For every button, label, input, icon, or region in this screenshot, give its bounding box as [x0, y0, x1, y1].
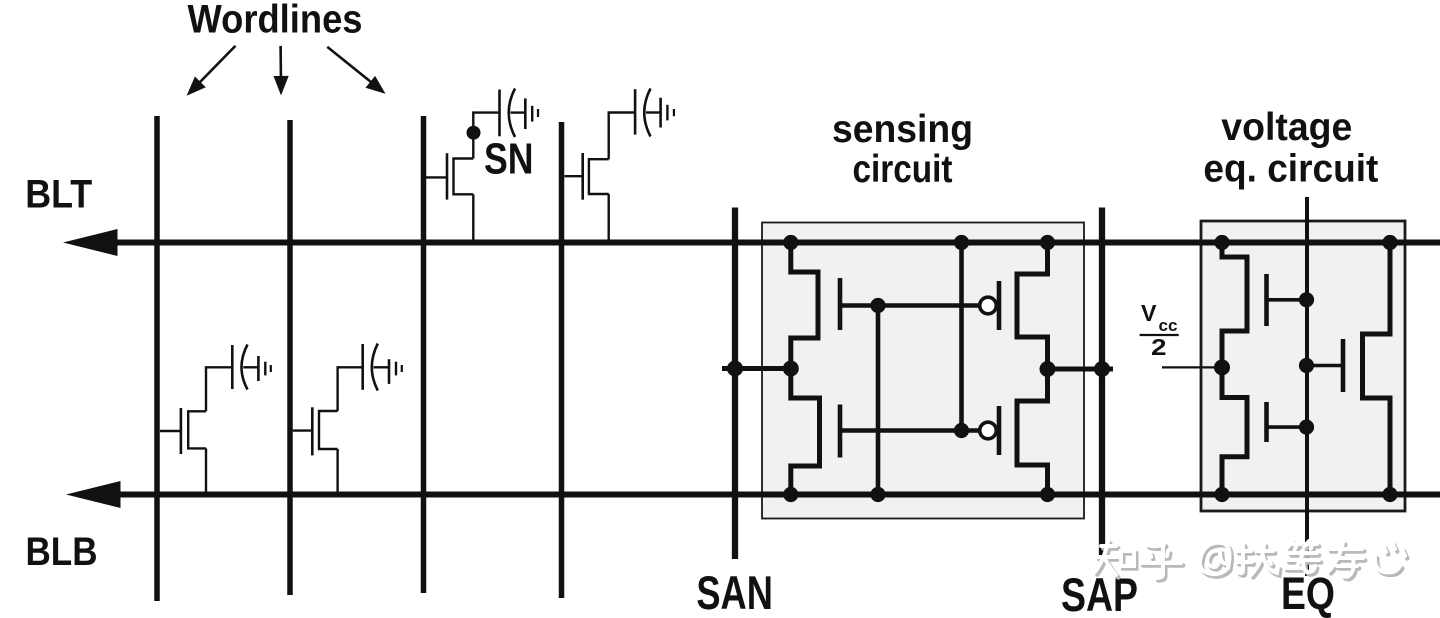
- dot EQ gate top: [1299, 292, 1314, 307]
- dot gate node bottom: [954, 423, 969, 438]
- cell1 plate wire: [511, 111, 526, 113]
- dot eq mid Vcc/2: [1214, 359, 1230, 375]
- dot BLT eq left: [1214, 235, 1229, 250]
- P1 gate bar (top right): [997, 281, 1002, 330]
- wordline WL3: [421, 116, 427, 593]
- DRAM cell 4 on BLB at WL2: [293, 344, 402, 495]
- bitline BLT wire: [112, 240, 1440, 246]
- cell2 plate bar2: [666, 105, 668, 121]
- cell2 capacitor curved plate: [644, 89, 650, 137]
- cell2 plate bar3: [673, 109, 675, 116]
- wordline WL4: [559, 122, 565, 598]
- SAN control line: [732, 208, 738, 560]
- NMOS Q1 left rail with channels: [791, 243, 820, 495]
- cell2 gate wire: [565, 175, 583, 177]
- equalizer transistor rail and channel: [1363, 243, 1391, 495]
- DRAM cell 1 on BLT at WL3: [426, 89, 538, 243]
- cell4 source wire to BLB: [336, 449, 338, 495]
- junction dots sensing circuit: [727, 235, 1110, 502]
- DRAM cell 3 on BLB at WL1: [160, 345, 271, 495]
- P2 gate bubble: [980, 422, 997, 439]
- cell2 source wire to BLT: [608, 194, 610, 243]
- cell4 transistor channel: [319, 411, 338, 449]
- eq bottom gate wire: [1267, 425, 1308, 429]
- cell4 plate bar3: [401, 365, 403, 372]
- svg-text:V: V: [1141, 300, 1157, 326]
- cell3 gate wire: [160, 430, 181, 432]
- cell1 capacitor flat plate: [498, 90, 501, 137]
- cell4 plate bar1: [388, 359, 391, 384]
- P1 gate bubble: [980, 297, 997, 314]
- cell3 plate wire: [243, 366, 258, 368]
- cell2 plate bar1: [659, 98, 662, 128]
- cell3 plate bar1: [257, 356, 260, 381]
- dot EQ gate bottom: [1299, 420, 1314, 435]
- cross-couple vertical wire to BLB: [876, 306, 881, 495]
- EQ control line: [1305, 197, 1309, 576]
- cross-couple gate wire bottom (to BLT node): [840, 428, 980, 433]
- wm white pass: [1095, 541, 1405, 578]
- Vcc/2 fraction bar: [1140, 334, 1179, 336]
- cell2 capacitor flat plate: [634, 89, 637, 134]
- cell2 transistor channel: [589, 159, 609, 194]
- cross-couple vertical wire to BLT: [959, 243, 964, 431]
- cell2 drain wire to capacitor: [609, 113, 635, 160]
- dot BLT cross wire: [954, 235, 969, 250]
- dot BLB cross wire: [870, 487, 885, 502]
- cell3 capacitor flat plate: [231, 345, 234, 389]
- cell1 transistor channel: [454, 159, 474, 195]
- cell3 gate bar: [180, 408, 183, 454]
- cell4 gate bar: [311, 407, 314, 455]
- cell4 drain wire to capacitor: [338, 367, 363, 411]
- dot right rail mid: [1040, 361, 1056, 377]
- wordline WL2: [287, 120, 293, 595]
- dot BLT eq right: [1382, 235, 1397, 250]
- cell1 gate wire: [426, 176, 447, 178]
- cell2 plate wire: [646, 111, 661, 113]
- wordline WL1: [154, 116, 160, 601]
- sensing circuit internals: [722, 243, 1113, 495]
- eq left rail with precharge channels: [1222, 243, 1247, 495]
- PMOS right rail with channels: [1017, 243, 1048, 495]
- wm shadow pass: [1097, 544, 1407, 581]
- Vcc/2 wire: [1162, 366, 1222, 368]
- cell3 capacitor curved plate: [242, 345, 248, 390]
- dot gate node top: [870, 298, 885, 313]
- cell1 drain wire to capacitor: [473, 113, 499, 159]
- node SN dot: [467, 126, 481, 140]
- sensing circuit box: [762, 223, 1084, 519]
- eq top gate bar: [1264, 274, 1269, 326]
- arrow from Wordlines to WL2: [274, 46, 289, 96]
- svg-text:Wordlines: Wordlines: [188, 0, 363, 42]
- svg-text:sensing: sensing: [832, 108, 973, 151]
- cell1 plate bar2: [531, 106, 533, 122]
- svg-text:SN: SN: [484, 135, 534, 184]
- dot SAP: [1094, 361, 1110, 377]
- cell4 plate bar2: [395, 362, 397, 376]
- dot BLB right rail: [1040, 487, 1055, 502]
- svg-text:eq. circuit: eq. circuit: [1203, 148, 1378, 191]
- cross-couple gate wire top (to BLB node): [840, 303, 980, 308]
- cell4 capacitor curved plate: [372, 344, 378, 391]
- svg-text:BLT: BLT: [25, 173, 92, 217]
- svg-text:cc: cc: [1159, 316, 1178, 335]
- cell1 capacitor curved plate: [509, 89, 515, 138]
- svg-text:2: 2: [1151, 334, 1167, 360]
- BLB arrowhead: [66, 481, 121, 508]
- dot BLT right rail: [1040, 235, 1055, 250]
- svg-text:SAN: SAN: [696, 566, 773, 618]
- bitline BLB wire: [112, 492, 1440, 498]
- svg-text:SAP: SAP: [1061, 568, 1138, 618]
- cell4 plate wire: [374, 366, 390, 368]
- cell4 gate wire: [293, 429, 313, 431]
- equalizer gate bar: [1341, 339, 1346, 392]
- Q2 gate bar (bottom left): [838, 405, 843, 458]
- arrow from Wordlines to WL3: [327, 47, 385, 94]
- voltage eq circuit box: [1201, 221, 1405, 511]
- cell3 plate bar3: [270, 365, 272, 372]
- SAP stub wire: [1048, 367, 1114, 372]
- cell1 source wire to BLT: [472, 194, 474, 242]
- arrow from Wordlines to WL1: [187, 46, 236, 96]
- dot EQ gate mid: [1299, 358, 1314, 373]
- junction dots eq circuit: [1214, 235, 1398, 502]
- svg-text:BLB: BLB: [26, 530, 98, 574]
- cell3 transistor channel: [188, 411, 206, 448]
- svg-text:circuit: circuit: [853, 148, 953, 191]
- svg-text:voltage: voltage: [1221, 106, 1352, 149]
- dot BLT left rail: [783, 235, 798, 250]
- cell4 capacitor flat plate: [361, 344, 364, 390]
- cell1 gate bar: [446, 153, 449, 199]
- SAP control line: [1099, 208, 1105, 559]
- eq top gate wire: [1267, 298, 1308, 302]
- dot BLB left rail: [783, 487, 798, 502]
- Q1 gate bar (top left): [838, 278, 843, 330]
- cell1 plate bar3: [537, 109, 539, 117]
- cell3 source wire to BLB: [205, 448, 207, 494]
- cell1 plate bar1: [524, 98, 527, 129]
- dot left rail mid: [783, 361, 799, 377]
- eq circuit internals: [1162, 243, 1390, 495]
- dot BLB eq right: [1382, 487, 1397, 502]
- dot SAN: [727, 361, 743, 377]
- cell3 drain wire to capacitor: [206, 367, 232, 411]
- P2 gate bar (bottom right): [997, 406, 1002, 455]
- eq bottom gate bar: [1264, 402, 1269, 442]
- dot BLB eq left: [1214, 487, 1229, 502]
- cell2 gate bar: [581, 153, 584, 200]
- BLT arrowhead: [63, 229, 118, 256]
- DRAM cell 2 on BLT at WL4: [565, 89, 674, 243]
- equalizer gate wire: [1307, 364, 1343, 368]
- SAN stub wire: [722, 366, 791, 371]
- cell3 plate bar2: [264, 362, 266, 376]
